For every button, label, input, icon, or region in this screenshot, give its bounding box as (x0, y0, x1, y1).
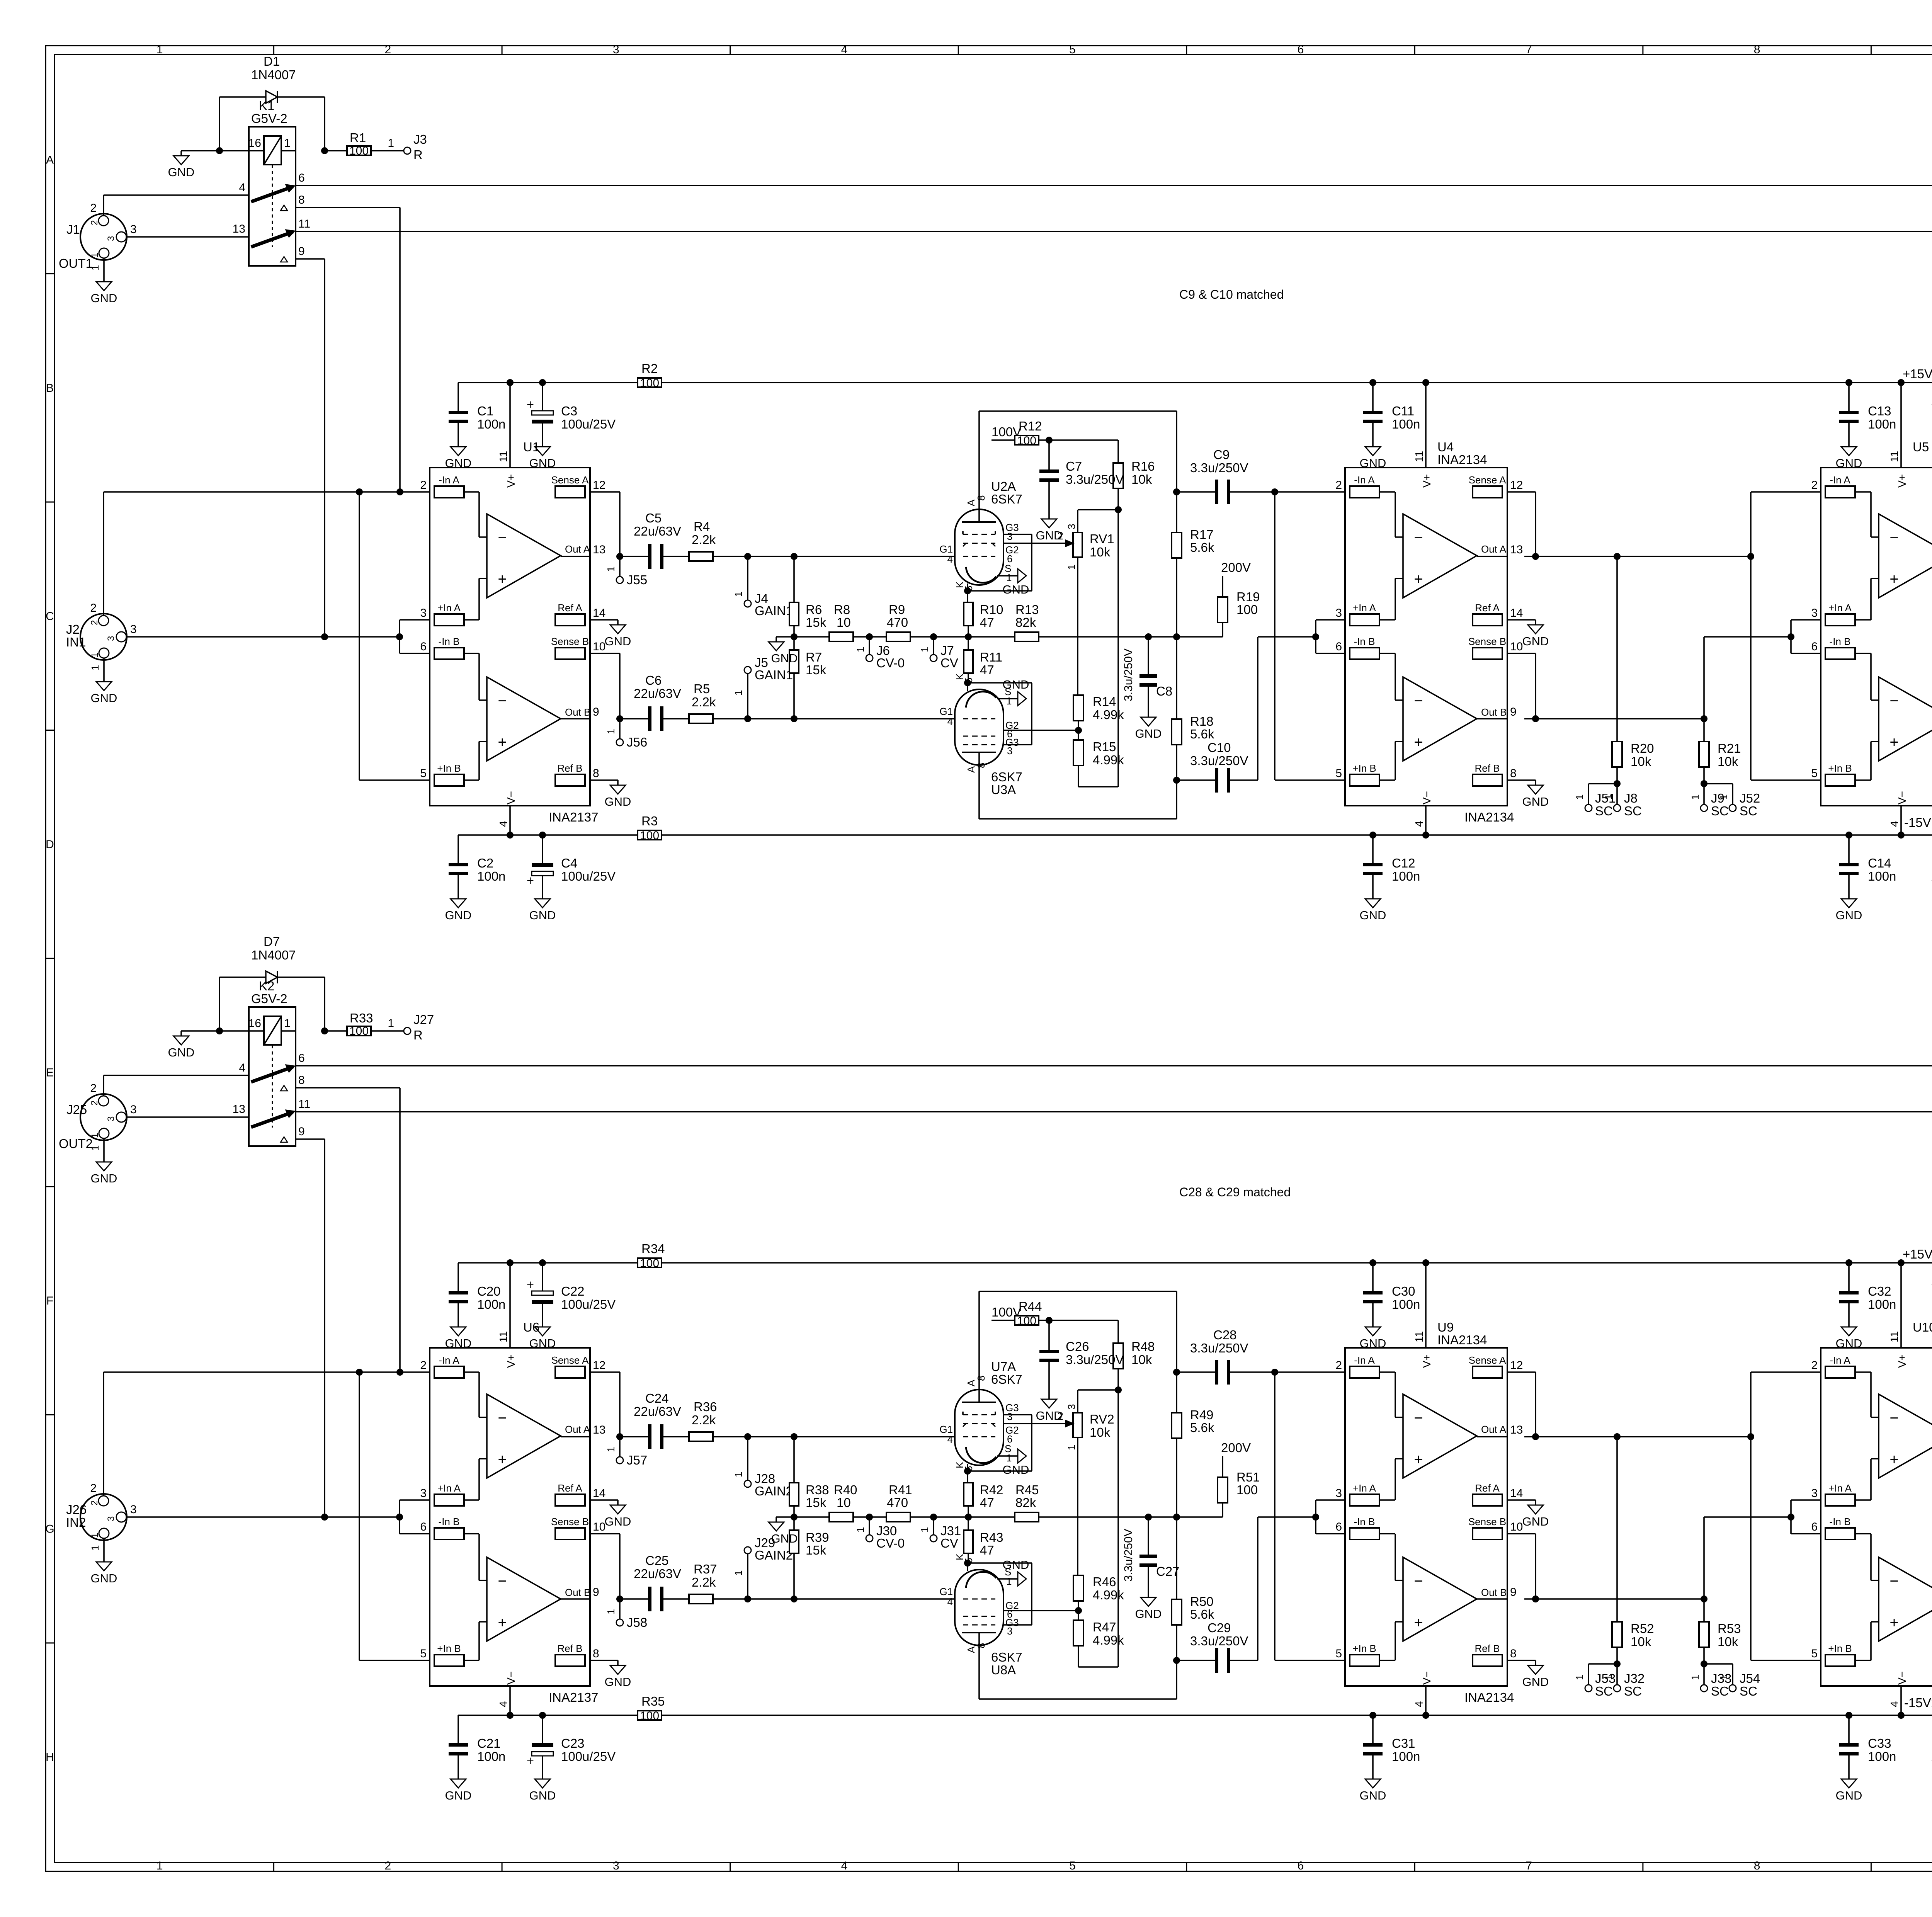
svg-text:+: + (1889, 1451, 1898, 1468)
svg-text:1: 1 (605, 1447, 617, 1452)
svg-text:D1: D1 (264, 54, 280, 68)
svg-text:5.6k: 5.6k (1190, 1607, 1214, 1621)
svg-text:200V: 200V (1221, 560, 1251, 575)
svg-text:Sense A: Sense A (1469, 474, 1507, 486)
svg-text:3: 3 (106, 1516, 116, 1521)
ground at U6 Ref A (607, 1499, 618, 1501)
resistor R21 (1703, 719, 1705, 742)
junction R20 tap (1614, 553, 1621, 560)
svg-text:11: 11 (298, 218, 310, 230)
svg-text:1: 1 (733, 690, 744, 696)
U4 V- pin 4 (1425, 806, 1427, 835)
svg-text:4: 4 (947, 1434, 953, 1445)
U7A cathode arc (966, 1447, 996, 1463)
potentiometer RV1 (1078, 509, 1118, 510)
svg-text:−: − (1889, 1573, 1898, 1590)
ground at gain rail (776, 636, 794, 638)
capacitor C3 (542, 383, 543, 411)
svg-text:Sense A: Sense A (1469, 1354, 1507, 1366)
capacitor C10 (1177, 779, 1218, 781)
resistor R46 (1077, 1437, 1078, 1575)
relay pin 16 (249, 150, 264, 151)
svg-text:C4: C4 (561, 856, 577, 870)
wire C10 to U4 ref bracket (1257, 637, 1259, 780)
svg-text:−: − (1414, 1410, 1423, 1427)
svg-text:22u/63V: 22u/63V (634, 1567, 681, 1581)
U4 pin 5 (+In B) (1350, 774, 1379, 786)
svg-text:−: − (1414, 692, 1423, 709)
U7A anode (962, 1402, 996, 1403)
svg-text:G5V-2: G5V-2 (251, 992, 287, 1006)
svg-text:Ref A: Ref A (1475, 602, 1500, 614)
junction rail/U10 V+ (1898, 1259, 1905, 1266)
svg-text:6: 6 (420, 1521, 427, 1533)
svg-text:3: 3 (1066, 1404, 1077, 1410)
wire C29 to U9 ref bracket (1257, 1517, 1259, 1660)
resistor R16 (1117, 440, 1119, 463)
svg-text:J8: J8 (1624, 791, 1638, 805)
svg-text:16: 16 (248, 137, 261, 150)
wire U2A anode to C9 node (979, 410, 1177, 412)
svg-text:GAIN2: GAIN2 (755, 1484, 793, 1498)
resistor R33 (325, 1030, 347, 1032)
svg-text:1N4007: 1N4007 (251, 68, 296, 82)
svg-text:1: 1 (1718, 794, 1730, 800)
svg-text:1: 1 (1689, 1675, 1701, 1680)
svg-text:INA2134: INA2134 (1437, 452, 1487, 467)
svg-text:GND: GND (91, 691, 117, 705)
svg-text:2: 2 (384, 1859, 391, 1872)
junction rail/C33 (1845, 1712, 1852, 1719)
connector J2 XLR IN1 (80, 614, 127, 660)
U1 pin 14 (Ref A) (555, 614, 585, 626)
svg-text:R: R (413, 148, 423, 162)
U4 op-amp A triangle (1403, 514, 1477, 598)
junction rail/C3 (539, 379, 546, 386)
svg-text:9: 9 (593, 1586, 599, 1599)
svg-text:100: 100 (1017, 1315, 1036, 1327)
junction D7 anode (216, 1027, 223, 1034)
capacitor C7 (1048, 440, 1050, 469)
svg-text:C31: C31 (1392, 1736, 1415, 1750)
U6 pin 8 (Ref B) (555, 1655, 585, 1666)
U7A cathode pin K (967, 1464, 968, 1471)
op-amp U6 INA2137 body (430, 1348, 590, 1686)
svg-text:R5: R5 (694, 682, 710, 696)
wire J25 pin3 to relay pin 13 (126, 1116, 249, 1118)
junction R46/R47 G2 tap (1075, 1607, 1082, 1614)
connector J51 SC (1588, 783, 1617, 784)
svg-text:12: 12 (593, 479, 605, 492)
svg-text:4: 4 (947, 716, 953, 727)
svg-text:C1: C1 (477, 404, 493, 418)
svg-text:5.6k: 5.6k (1190, 727, 1214, 741)
junction J28 tap (744, 1433, 751, 1440)
svg-text:R49: R49 (1190, 1408, 1214, 1422)
svg-text:GND: GND (529, 908, 556, 922)
svg-text:4: 4 (239, 181, 245, 194)
svg-text:1: 1 (919, 1527, 930, 1533)
U5 op-amp A triangle (1879, 514, 1932, 598)
U4 pin 12 (Sense A) (1473, 486, 1502, 498)
junction U9 ref bracket (1312, 1514, 1319, 1521)
svg-text:4: 4 (1888, 821, 1900, 827)
svg-text:R1: R1 (350, 131, 366, 145)
svg-text:6: 6 (1811, 1521, 1818, 1533)
svg-text:R15: R15 (1093, 740, 1116, 754)
resistor R40 (794, 1516, 829, 1518)
capacitor C2 (457, 835, 459, 863)
svg-text:GND: GND (771, 651, 798, 665)
U5 pin 2 (-In A) (1825, 486, 1855, 498)
svg-text:5: 5 (1069, 43, 1076, 56)
capacitor C1 (457, 383, 459, 411)
svg-text:CV: CV (940, 656, 958, 670)
U8A screen pin S to GND (997, 1578, 1018, 1580)
svg-text:V+: V+ (1896, 474, 1908, 488)
svg-text:1: 1 (1602, 794, 1614, 800)
svg-text:R2: R2 (641, 361, 658, 376)
ground at U9 Ref B (1524, 1660, 1536, 1661)
relay NC contact pin 9 (281, 257, 287, 262)
svg-text:100u/25V: 100u/25V (561, 869, 616, 883)
svg-text:SC: SC (1711, 804, 1729, 818)
resistor R7 (793, 673, 795, 719)
svg-text:C29: C29 (1207, 1621, 1231, 1635)
svg-text:R42: R42 (980, 1483, 1003, 1497)
svg-text:1: 1 (733, 592, 744, 597)
svg-text:4: 4 (841, 43, 848, 56)
svg-text:470: 470 (887, 615, 908, 629)
svg-text:8: 8 (975, 763, 987, 768)
wire hot branch to U1 +In B (359, 492, 360, 780)
svg-text:15k: 15k (806, 1495, 827, 1510)
junction input hot branch (356, 488, 363, 495)
ground at J2 pin1 (103, 658, 105, 677)
svg-text:+In B: +In B (1828, 1643, 1852, 1654)
svg-text:R9: R9 (889, 602, 905, 617)
svg-text:+: + (527, 397, 534, 412)
svg-text:5: 5 (420, 767, 427, 780)
junction input hot branch (356, 1369, 363, 1376)
svg-text:100u/25V: 100u/25V (561, 417, 616, 431)
svg-text:C7: C7 (1066, 459, 1082, 473)
junction R52 tap (1614, 1433, 1621, 1440)
capacitor C6 (620, 718, 651, 720)
svg-text:R35: R35 (641, 1694, 665, 1708)
svg-text:9: 9 (593, 706, 599, 718)
svg-text:A: A (46, 153, 54, 166)
svg-text:5.6k: 5.6k (1190, 540, 1214, 555)
svg-text:C: C (46, 610, 54, 623)
svg-text:12: 12 (1510, 479, 1523, 492)
svg-text:Out B: Out B (1481, 706, 1507, 718)
svg-text:Ref B: Ref B (557, 762, 582, 774)
svg-text:+: + (498, 1614, 507, 1631)
wire U6 Sense B to Out B (607, 1533, 620, 1534)
resistor R13 (1015, 632, 1039, 641)
U5 V- pin 4 (1900, 806, 1902, 835)
svg-text:V−: V− (1896, 791, 1908, 805)
connector J7 CV (933, 637, 934, 655)
svg-text:14: 14 (593, 607, 605, 619)
svg-text:10: 10 (1510, 1521, 1523, 1533)
U8A grid G1 (dashed) (963, 1599, 995, 1600)
svg-text:100n: 100n (477, 869, 505, 883)
svg-text:10k: 10k (1718, 1635, 1738, 1649)
svg-text:R43: R43 (980, 1530, 1003, 1544)
svg-text:V−: V− (1896, 1671, 1908, 1685)
resistor R8 (794, 636, 829, 638)
svg-text:Out B: Out B (565, 706, 590, 718)
U8A cathode arc (966, 1572, 996, 1588)
junction R6 tap (791, 553, 798, 560)
svg-text:GND: GND (91, 1172, 117, 1185)
capacitor C27 (1148, 1517, 1149, 1555)
connector J8 SC (1616, 784, 1618, 805)
svg-text:GND: GND (605, 1675, 631, 1689)
wire cold bracket (399, 1500, 400, 1534)
svg-text:GND: GND (91, 291, 117, 305)
resistor R37 (660, 1598, 689, 1600)
svg-text:1: 1 (855, 647, 866, 652)
svg-text:R6: R6 (806, 602, 822, 617)
junction R49/R50 bias (1173, 1514, 1180, 1521)
svg-text:V+: V+ (1421, 1354, 1433, 1368)
U6 pin 2 (-In A) (434, 1366, 464, 1378)
svg-text:13: 13 (593, 1424, 605, 1436)
capacitor C20 (457, 1263, 459, 1291)
junction rail/U5 V+ (1898, 379, 1905, 386)
svg-text:GND: GND (91, 1572, 117, 1585)
U5 V+ pin 11 (1900, 383, 1902, 468)
junction C10 left (1173, 777, 1180, 784)
svg-text:Ref A: Ref A (558, 1482, 582, 1494)
junction U4 ref bracket (1312, 633, 1319, 640)
svg-text:Out A: Out A (1481, 1424, 1507, 1435)
U9 pin 12 (Sense A) (1473, 1366, 1502, 1378)
svg-text:GND: GND (605, 1515, 631, 1528)
capacitor C23 (542, 1715, 543, 1743)
svg-text:10: 10 (593, 640, 605, 653)
svg-text:13: 13 (593, 543, 605, 556)
svg-text:-In B: -In B (439, 636, 460, 647)
svg-text:R48: R48 (1131, 1339, 1155, 1354)
svg-text:R13: R13 (1015, 602, 1039, 617)
svg-text:8: 8 (975, 1643, 987, 1648)
relay switch arm B (251, 1112, 293, 1127)
U8A anode (962, 1632, 996, 1633)
junction rail/C23 (539, 1712, 546, 1719)
U6 pin 3 (+In A) (434, 1494, 464, 1506)
wire U3A G2 to R14/R15 (1003, 730, 1078, 731)
svg-text:100n: 100n (1392, 869, 1420, 883)
svg-text:+In A: +In A (437, 602, 461, 614)
svg-text:C9: C9 (1213, 447, 1230, 462)
resistor R17 (1176, 492, 1177, 532)
svg-text:2: 2 (89, 1101, 100, 1106)
svg-text:1: 1 (89, 1545, 101, 1551)
svg-text:1: 1 (1066, 565, 1077, 570)
U1 pin 2 (-In A) (434, 486, 464, 498)
resistor R49 (1176, 1372, 1177, 1413)
junction R38/R39 (791, 1514, 798, 1521)
svg-text:6: 6 (1298, 43, 1304, 56)
resistor R53 (1703, 1599, 1705, 1622)
relay switch arm A (251, 187, 293, 202)
svg-text:+: + (1414, 734, 1423, 751)
U4 pin 14 (Ref A) (1473, 614, 1502, 626)
svg-text:100n: 100n (1392, 1749, 1420, 1764)
svg-text:GND: GND (1360, 1789, 1386, 1802)
resistor R43 (968, 1517, 969, 1531)
wire U3A anode to C10 node (979, 818, 1177, 820)
svg-text:+15V1: +15V1 (1903, 367, 1932, 381)
svg-text:GAIN1: GAIN1 (755, 668, 793, 682)
connector J33 SC (1703, 1664, 1705, 1685)
U4 pin 3 (+In A) (1350, 614, 1379, 626)
ground at gain rail (776, 1516, 794, 1518)
svg-text:GND: GND (1135, 1607, 1162, 1621)
junction rail/U4 V+ (1422, 379, 1429, 386)
ground at U4 Ref B (1524, 779, 1536, 781)
capacitor C5 (620, 556, 651, 557)
svg-text:-In B: -In B (1354, 1516, 1375, 1527)
junction U2A cathode (964, 587, 971, 594)
U10 op-amp B triangle (1879, 1557, 1932, 1641)
svg-text:5: 5 (1335, 1647, 1342, 1660)
svg-text:SC: SC (1595, 804, 1613, 818)
wire +15V1 rail (458, 1262, 1932, 1264)
svg-text:3: 3 (1811, 1487, 1818, 1500)
U9 pin 14 (Ref A) (1473, 1494, 1502, 1506)
svg-text:C13: C13 (1868, 404, 1891, 418)
svg-text:U9: U9 (1437, 1320, 1454, 1334)
capacitor C25 (620, 1598, 651, 1600)
resistor R9 (886, 632, 910, 641)
wire J1 pin2 to relay pin 4 (103, 195, 104, 216)
svg-text:Ref A: Ref A (1475, 1482, 1500, 1494)
svg-text:4: 4 (841, 1859, 848, 1872)
svg-text:Out B: Out B (1481, 1587, 1507, 1598)
svg-text:3: 3 (1335, 1487, 1342, 1500)
svg-text:GND: GND (1003, 583, 1029, 596)
svg-text:GND: GND (1836, 1789, 1862, 1802)
svg-text:6: 6 (1298, 1859, 1304, 1872)
svg-text:-In B: -In B (439, 1516, 460, 1527)
junction C28 right (1271, 1369, 1278, 1376)
svg-text:3.3u/250V: 3.3u/250V (1190, 1634, 1248, 1648)
svg-text:1: 1 (605, 729, 617, 734)
svg-text:1: 1 (1602, 1675, 1614, 1680)
svg-text:U7A: U7A (991, 1359, 1016, 1374)
U6 pin 6 (-In B) (434, 1528, 464, 1539)
U4 pin 8 (Ref B) (1473, 774, 1502, 786)
U2A screen pin S to GND (997, 575, 1018, 577)
tube U7A 6SK7 envelope (955, 1390, 1003, 1465)
U9 op-amp B triangle (1403, 1557, 1477, 1641)
wire relay pin6 (long feedback A) (296, 185, 1932, 186)
svg-text:3: 3 (1007, 531, 1012, 542)
svg-text:1: 1 (284, 137, 291, 150)
U2A G3-cathode tie (968, 590, 1032, 592)
U6 pin 12 (Sense A) (555, 1366, 585, 1378)
svg-text:+In B: +In B (437, 762, 461, 774)
svg-text:6: 6 (298, 1052, 305, 1065)
svg-text:C28 & C29 matched: C28 & C29 matched (1179, 1185, 1291, 1199)
capacitor C9 (1177, 491, 1218, 493)
resistor R44 (1015, 1316, 1039, 1325)
junction cold bracket (396, 1514, 403, 1521)
U4 ref bracket (1315, 620, 1316, 653)
svg-text:2: 2 (89, 220, 100, 225)
svg-text:14: 14 (1510, 607, 1523, 619)
svg-text:−: − (498, 1573, 507, 1590)
connector J30 CV-0 (869, 1517, 870, 1535)
svg-text:12: 12 (593, 1359, 605, 1372)
svg-text:11: 11 (1888, 451, 1900, 462)
junction relay pin9 / input cold (321, 633, 328, 640)
svg-text:SC: SC (1624, 1684, 1642, 1698)
svg-text:SC: SC (1740, 1684, 1757, 1698)
svg-text:2: 2 (89, 1500, 100, 1505)
U2A cathode pin K (967, 583, 968, 591)
svg-text:13: 13 (1510, 543, 1523, 556)
junction U9 Out A (1532, 1433, 1539, 1440)
resistor R14 (1077, 557, 1078, 695)
svg-text:Out A: Out A (1481, 543, 1507, 555)
svg-text:G: G (45, 1523, 54, 1536)
svg-text:+In A: +In A (1353, 602, 1376, 614)
svg-text:100: 100 (1017, 434, 1036, 447)
svg-text:−: − (1889, 1410, 1898, 1427)
svg-text:13: 13 (233, 1103, 245, 1116)
capacitor C29 (1177, 1660, 1218, 1661)
svg-text:+In B: +In B (1352, 1643, 1376, 1654)
svg-text:Sense B: Sense B (1468, 1516, 1506, 1527)
svg-text:OUT1: OUT1 (59, 256, 93, 270)
junction rail/U9 V+ (1422, 1259, 1429, 1266)
svg-text:B: B (46, 382, 54, 395)
svg-text:2: 2 (1811, 1359, 1818, 1372)
svg-text:1: 1 (1006, 1452, 1012, 1464)
junction J31 tap (930, 1514, 937, 1521)
relay switch arm B (251, 232, 293, 247)
svg-text:IN1: IN1 (66, 635, 86, 649)
svg-text:5: 5 (420, 1647, 427, 1660)
svg-text:6SK7: 6SK7 (991, 1372, 1022, 1386)
svg-text:100n: 100n (1868, 417, 1896, 431)
svg-text:−: − (1414, 1573, 1423, 1590)
U10 V+ pin 11 (1900, 1263, 1902, 1348)
svg-text:V+: V+ (505, 1354, 517, 1368)
resistor R51 (1218, 1477, 1228, 1503)
wire J25 pin2 to relay pin 4 (103, 1075, 104, 1096)
svg-text:6: 6 (1335, 1521, 1342, 1533)
svg-text:6SK7: 6SK7 (991, 1650, 1022, 1664)
svg-text:+: + (1889, 734, 1898, 751)
svg-text:14: 14 (593, 1487, 605, 1500)
svg-text:3.3u/250V: 3.3u/250V (1190, 1341, 1248, 1355)
wire U6 Sense A to Out A (607, 1371, 620, 1373)
svg-text:2.2k: 2.2k (692, 1575, 716, 1589)
svg-text:47: 47 (980, 1543, 994, 1557)
junction rail/U6 V+ (507, 1259, 514, 1266)
U3A cathode arc (966, 692, 996, 708)
U9 pin 10 (Sense B) (1473, 1528, 1502, 1539)
svg-text:U10: U10 (1913, 1320, 1932, 1334)
U3A anode (962, 752, 996, 753)
